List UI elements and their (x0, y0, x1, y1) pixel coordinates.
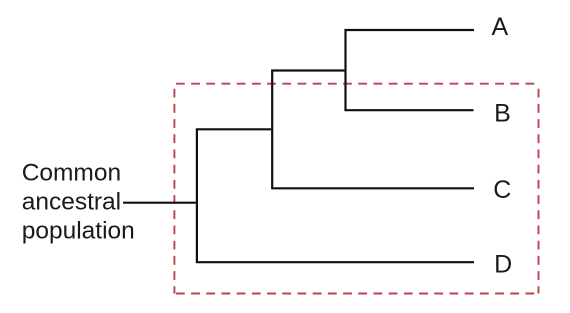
svg-text:Common: Common (22, 160, 121, 187)
svg-text:A: A (492, 13, 509, 41)
svg-text:C: C (493, 176, 511, 204)
svg-text:ancestral: ancestral (22, 189, 121, 216)
svg-text:D: D (494, 251, 512, 279)
svg-text:B: B (494, 99, 511, 127)
svg-text:population: population (22, 217, 135, 244)
